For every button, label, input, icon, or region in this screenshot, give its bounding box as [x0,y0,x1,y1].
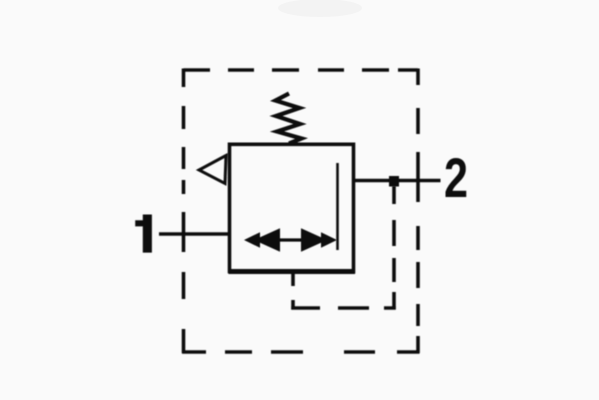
feedback pilot line: bottom horizontal dashed run [291,306,395,310]
svg-text:2: 2 [444,146,468,209]
outer dashed enclosure: top edge [184,68,419,72]
feedback pilot line: right vertical dashed run up to node [392,186,396,310]
faint scan smudge top center [278,0,362,17]
outer dashed enclosure: right edge [416,69,420,354]
left flow arrow head (large rear) [254,228,280,251]
outer dashed enclosure: left edge [182,69,186,354]
right flow arrow head (small front) [321,232,337,248]
port 2 connection line [354,179,441,183]
arrow link line (flow element) [278,238,303,241]
outer dashed enclosure: bottom edge [182,350,420,354]
internal seat line (thin vertical) [336,163,339,250]
port 1 connection line [159,232,230,236]
spring (pressure setting) above valve body [276,94,302,144]
valve body (inner square) [230,144,354,271]
pilot vent triangle on left of valve body [199,156,226,184]
junction node dot on port 2 line [389,176,399,187]
feedback pilot line: stub below valve body [291,272,295,310]
valve body thick bottom edge [229,269,356,274]
right flow arrow head (large rear) [301,228,327,251]
left flow arrow head (small front) [244,232,260,248]
port label 1 [135,215,152,253]
